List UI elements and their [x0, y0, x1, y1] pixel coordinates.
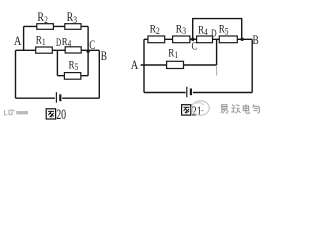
resistor label R4 (left circuit): [62, 36, 71, 49]
svg-text:C: C: [89, 39, 95, 53]
resistor label R2 (left circuit): [37, 11, 47, 25]
resistor R4 (left circuit): [65, 47, 81, 53]
svg-text:R4: R4: [62, 36, 71, 49]
wire: right circuit riser from A row up to node D: [216, 39, 218, 65]
resistor R5 (left circuit): [64, 73, 80, 80]
figure caption 图20 : hand-drawn 图 glyph: [46, 109, 55, 119]
wire: left circuit bottom right segment: [62, 97, 99, 99]
watermark text 易筑电气 (hand-drawn gray glyphs): [221, 104, 260, 113]
svg-text:R2: R2: [37, 11, 47, 25]
svg-text:R5: R5: [69, 60, 79, 73]
svg-text:A: A: [131, 58, 139, 72]
resistor R3 (left circuit): [65, 24, 81, 30]
wire: left circuit riser from A row to top branch: [23, 26, 25, 50]
node D label (left circuit): [56, 38, 61, 50]
wire: left circuit drop from node D to R5 row: [56, 50, 58, 75]
wire: faint ghost stub below A row corner: [216, 65, 218, 76]
resistor label R5 (right circuit): [219, 24, 229, 37]
svg-text:C: C: [192, 40, 198, 53]
wire: left circuit riser from R5 row to node C: [87, 51, 89, 75]
wire: right circuit outer left vertical: [143, 39, 145, 92]
resistor R2 (left circuit): [37, 24, 54, 30]
watermark stamp inner smudge: [196, 103, 204, 105]
resistor label R2 (right circuit): [150, 22, 160, 36]
junction dot node C (right circuit): [191, 38, 194, 41]
svg-text:R3: R3: [176, 22, 186, 36]
wire: left circuit R5 row: [57, 75, 88, 77]
svg-text:D: D: [56, 38, 61, 50]
resistor R1 (right circuit): [167, 61, 184, 68]
wire: right circuit bypass bracket over R4 R5: [193, 19, 242, 40]
resistor R1 (left circuit): [36, 47, 53, 53]
battery (right circuit) short plate: [190, 89, 192, 96]
battery (left circuit) short plate: [59, 94, 61, 101]
svg-text:R4: R4: [198, 25, 208, 38]
svg-text:20: 20: [56, 106, 66, 122]
resistor label R1 (left circuit): [36, 35, 46, 48]
node D label (right circuit): [211, 28, 217, 39]
svg-text:R1: R1: [168, 48, 178, 61]
wire: left circuit drop from top row to node C: [87, 26, 89, 51]
node C label (right circuit): [192, 40, 198, 53]
svg-text:R3: R3: [67, 11, 77, 25]
svg-text:B: B: [101, 50, 107, 64]
svg-text:R5: R5: [219, 24, 229, 37]
resistor R3 (right circuit): [173, 36, 190, 43]
wire: left circuit right vertical B down: [98, 50, 100, 98]
figure caption 20: [56, 106, 66, 122]
figure caption 图21 : hand-drawn 图 glyph: [182, 105, 191, 115]
resistor label R5 (left circuit): [69, 60, 79, 73]
watermark stamp circle over caption 21: [192, 101, 210, 115]
resistor label R3 (right circuit): [176, 22, 186, 36]
wire: left circuit middle row A to B corner: [16, 49, 100, 51]
wire: right circuit outer right vertical: [251, 39, 253, 92]
node A label (right circuit): [131, 58, 139, 72]
glyph 电: [243, 104, 249, 113]
resistor label R4 (right circuit): [198, 25, 208, 38]
wire: left circuit top row: [24, 25, 89, 27]
watermark smudge bottom-left: [5, 110, 15, 115]
wire: left circuit bottom left segment: [16, 97, 55, 99]
glyph 易: [221, 105, 228, 114]
wire: right circuit top row: [141, 19, 253, 93]
wire: left circuit outer left vertical: [15, 50, 17, 98]
battery (right circuit) long plate: [186, 87, 188, 98]
resistor R4 (right circuit): [197, 36, 213, 43]
svg-text:R1: R1: [36, 35, 46, 48]
resistor label R1 (right circuit): [168, 48, 178, 61]
node B label (right circuit): [253, 34, 259, 48]
svg-text:R2: R2: [150, 22, 160, 36]
resistor R5 (right circuit): [219, 36, 237, 43]
wire: right circuit A row: [141, 64, 217, 66]
resistor R2 (right circuit): [148, 36, 165, 43]
glyph 气: [253, 104, 260, 113]
junction dot right of R5 (right circuit): [241, 38, 244, 41]
svg-text:D: D: [211, 28, 217, 39]
battery (left circuit) long plate: [55, 92, 57, 103]
wire: right circuit bottom left segment: [144, 92, 186, 94]
glyph 筑: [231, 104, 240, 113]
svg-text:B: B: [253, 34, 259, 48]
node C label (left circuit): [89, 39, 95, 53]
junction dot node C (left circuit): [86, 50, 89, 53]
watermark stamp dash: [201, 110, 204, 112]
figure caption 21 under gray stamp: [192, 103, 202, 119]
svg-text:A: A: [14, 34, 22, 48]
node A label (left circuit): [14, 34, 22, 48]
resistor label R3 (left circuit): [67, 11, 77, 25]
wire: right circuit bottom right segment: [193, 92, 252, 94]
node B label (left circuit): [101, 50, 107, 64]
